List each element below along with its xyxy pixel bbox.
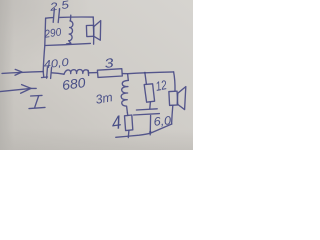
wire: coil L1 bottom hook to box bottom — [67, 41, 71, 44]
inductor L2 (680) horizontal coil — [64, 70, 89, 75]
resistor R3 (12) body — [144, 84, 154, 102]
paper background — [0, 0, 193, 150]
node B junction dot — [144, 72, 146, 74]
terminal symbol stem — [35, 96, 39, 107]
wire: R3 to C3 — [149, 102, 152, 109]
terminal symbol (I-beam) top bar — [31, 94, 42, 97]
node A junction drop — [127, 74, 130, 81]
wire: C3 lead down to bottom wire — [149, 115, 151, 134]
resistor R2 (4) body — [125, 115, 133, 131]
speaker LS1 horn — [94, 21, 101, 41]
arrow on lower input — [21, 85, 31, 94]
wire: node B drop to R3 — [145, 73, 147, 84]
wire: upper input line — [2, 72, 43, 74]
wire: from R1 to node A — [122, 73, 127, 75]
labels (handwritten digits) — [43, 0, 172, 134]
capacitor C3 (6.0) plates — [134, 109, 160, 115]
wire: coil L1 top hook — [69, 15, 71, 21]
speaker LS1 (tweeter) body — [86, 25, 93, 36]
wire: right corner vertical down to LS2 — [174, 72, 175, 91]
wire: tweeter top wire left segment — [46, 17, 53, 20]
wire: node B to right corner — [145, 71, 174, 74]
wire: from L2 to R1 — [89, 72, 98, 74]
speaker LS2 horn — [177, 87, 186, 110]
wire: LS2 bottom down to bottom wire — [172, 106, 173, 124]
inductor L1 (290) vertical coil — [69, 21, 73, 41]
wire: bottom return wire — [116, 124, 172, 137]
wire: from C2 to L2 — [52, 73, 64, 74]
arrow on upper input — [15, 69, 22, 75]
wire: tweeter top wire right segment — [60, 16, 93, 18]
capacitor C1 (2.5) plates — [53, 8, 59, 22]
resistor R1 (3) body — [97, 69, 122, 78]
wire: tick at L2 end — [87, 70, 89, 75]
junction dot at C3/bottom wire — [149, 131, 151, 133]
wire: left vertical from tweeter box down to main line — [43, 18, 45, 71]
wire: L3 to R2 — [126, 113, 128, 116]
wire: junction foot below main line — [42, 72, 48, 78]
speaker LS2 (woofer) body — [169, 91, 178, 105]
wire: tweeter box bottom — [45, 43, 90, 45]
wire: lower input line — [0, 88, 36, 91]
paper grain overlay — [0, 0, 193, 150]
capacitor C2 (40.0) plates — [47, 67, 52, 79]
inductor L3 (3m) vertical coil — [121, 80, 128, 112]
terminal symbol bottom bar — [29, 107, 45, 108]
wire: node A to node B — [128, 72, 145, 75]
wire: tweeter right vertical — [92, 17, 95, 44]
wire: R2 to bottom wire — [127, 130, 130, 137]
